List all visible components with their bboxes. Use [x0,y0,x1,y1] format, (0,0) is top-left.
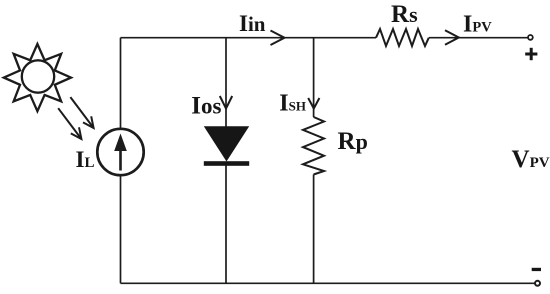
svg-text:Iin: Iin [239,11,266,36]
svg-text:Rs: Rs [391,1,418,28]
svg-text:Rp: Rp [338,128,368,155]
svg-text:Ios: Ios [191,93,221,120]
